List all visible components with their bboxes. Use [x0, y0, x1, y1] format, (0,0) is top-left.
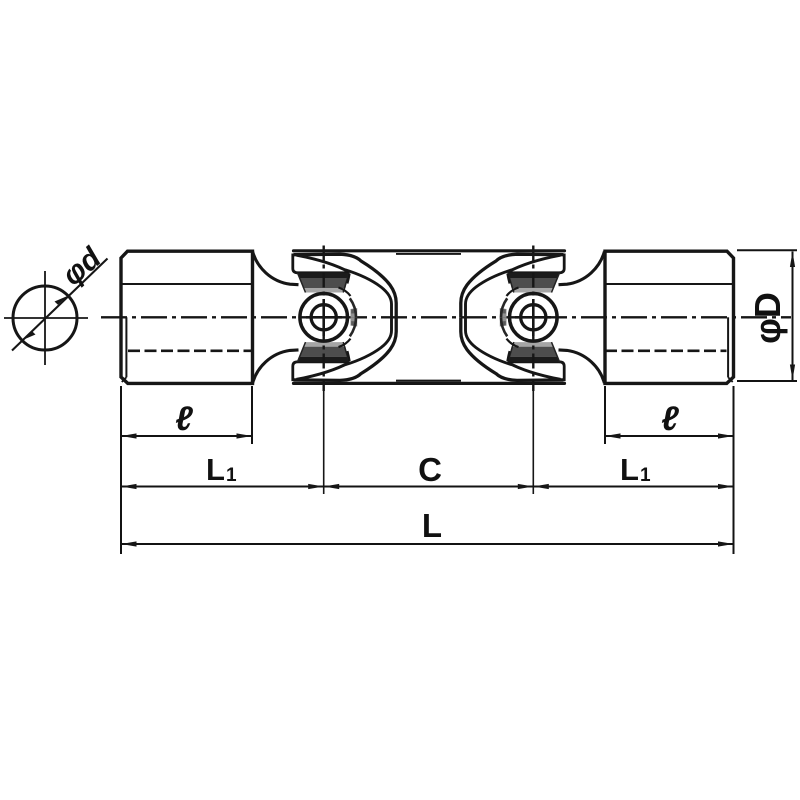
svg-text:ℓ: ℓ: [175, 400, 193, 438]
svg-text:C: C: [418, 451, 442, 488]
svg-text:1: 1: [640, 465, 651, 486]
svg-text:φD: φD: [747, 292, 788, 344]
svg-text:ℓ: ℓ: [661, 400, 679, 438]
svg-text:1: 1: [226, 465, 237, 486]
svg-text:L: L: [422, 507, 442, 544]
svg-text:L: L: [206, 452, 225, 487]
svg-text:L: L: [620, 452, 639, 487]
